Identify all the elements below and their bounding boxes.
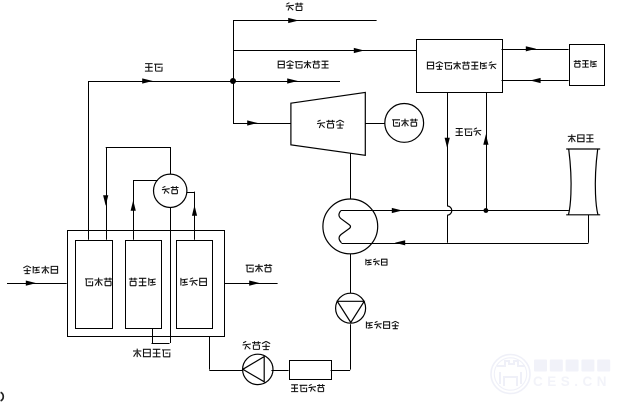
cooling water line tower to condenser (bottom) (342, 243, 589, 245)
label 废气余热 (waste gas heat) (23, 266, 58, 274)
pipe drum top horizontal (106, 147, 171, 149)
cooling water line condenser to tower (top) (341, 210, 569, 212)
condensate pump triangle (337, 301, 364, 322)
label 冷却塔 (cooling tower) (568, 134, 594, 142)
riser horizontal into drum left (133, 180, 158, 182)
flue gas inlet line (7, 283, 67, 285)
crossing hop arc (447, 206, 452, 215)
arrow riser up (131, 200, 136, 211)
junction dot main steam (230, 78, 236, 84)
cold user box (570, 45, 605, 86)
condensate pump circle (336, 293, 366, 323)
main steam riser from superheater (88, 81, 90, 240)
LiBr cooling water in (486, 92, 488, 210)
steam drum circle (154, 174, 187, 207)
tank to feed pump (271, 370, 288, 372)
LiBr cooling water out (upper) (447, 92, 449, 206)
label 采暖 (heating) (286, 3, 303, 11)
label 过热器 (superheater) (85, 278, 112, 286)
turbine-generator shaft (365, 123, 385, 125)
pipe into superheater top (106, 147, 108, 240)
arrow main steam right (142, 78, 153, 83)
waste heat boiler outer casing (68, 231, 225, 337)
label 给水泵 (feed pump) (243, 341, 271, 349)
chilled supply to cold user (502, 49, 569, 51)
junction dot cooling line (484, 208, 489, 213)
generator circle (385, 104, 424, 143)
watermark text blocks (534, 360, 610, 372)
arrow top cooling line (392, 208, 402, 213)
evaporator box (126, 241, 162, 329)
arrow chilled return (530, 78, 541, 83)
arrow steam to LiBr (354, 48, 364, 53)
arrow turbine inlet (247, 120, 258, 125)
arrow LiBr cooling up (483, 134, 488, 145)
watermark logo circle (491, 355, 530, 394)
label 蒸发器 (evaporator) (129, 278, 156, 286)
LiBr absorption chiller box (417, 40, 503, 93)
steam line to LiBr unit (233, 50, 417, 52)
arrow steam down into superheater (103, 195, 108, 206)
feed pump to economizer horizontal (209, 370, 242, 372)
steam turbine trapezoid (291, 92, 365, 155)
condenser to condensate pump (350, 254, 352, 293)
main steam header horizontal (88, 81, 340, 83)
label 蒸汽型溴化锂机组 (427, 62, 497, 70)
label 除氧水箱 (deaerator tank) (291, 384, 325, 392)
header notch left wall (152, 328, 154, 343)
label 凝结水泵 (condensate pump) (366, 321, 399, 328)
flue gas outlet line (224, 283, 278, 285)
condenser tube chevron (339, 211, 351, 243)
economizer box (177, 241, 213, 329)
steam manifold vertical (233, 21, 235, 124)
turbine exhaust to condenser (350, 153, 352, 199)
cooling tower shell (566, 149, 600, 215)
riser evaporator vertical (133, 180, 135, 240)
arrow chilled supply (526, 46, 536, 51)
label 去烟囱 (to stack) (246, 264, 273, 272)
pipe economizer to drum vertical (194, 192, 196, 240)
arrow flue gas out (249, 281, 260, 286)
label 余热锅炉 (waste-heat boiler) (133, 349, 171, 358)
label 主汽 (main steam) (145, 64, 163, 72)
arrow bottom cooling line (395, 240, 405, 245)
condensate pump to tank vertical (350, 324, 352, 369)
feedwater pump triangle (243, 357, 264, 382)
arrow LiBr cooling down (445, 138, 450, 148)
condenser circle (323, 199, 378, 254)
condensate to tank horizontal (331, 370, 351, 372)
arrow process steam right (287, 78, 298, 83)
label 生产工艺用汽 (process steam) (278, 61, 329, 69)
arrow economizer feed up (192, 205, 197, 216)
label 汽包 (steam drum) (162, 186, 179, 194)
label 冷却水 (cooling water) (456, 128, 482, 136)
label 汽轮机 (steam turbine) (317, 120, 344, 128)
label 省煤器 (economizer) (181, 278, 207, 286)
feedwater riser to economizer (209, 336, 211, 370)
label 发电机 (generator) (392, 119, 418, 127)
downcomer drum bottom to header (170, 208, 172, 344)
pipe economizer to drum horizontal (187, 192, 195, 194)
pipe drum top riser vertical (170, 147, 172, 174)
heating supply line (233, 20, 377, 22)
LiBr cooling water out (lower) (447, 215, 449, 243)
svg-text:CES.CN: CES.CN (533, 374, 611, 389)
deaerator water tank box (290, 361, 332, 380)
turbine inlet horizontal (233, 123, 291, 125)
header notch bottom (152, 343, 170, 345)
arrow heating supply (288, 18, 299, 23)
corner mark bottom-left (1, 392, 4, 401)
label 凝汽器 (condenser) (366, 259, 388, 266)
superheater box (76, 241, 113, 329)
arrow flue gas in (26, 281, 36, 286)
chilled return from cold user (502, 80, 569, 82)
tower outlet drop (588, 215, 590, 243)
feedwater pump circle (243, 354, 273, 384)
label 冷用户 (cold user) (574, 60, 597, 67)
